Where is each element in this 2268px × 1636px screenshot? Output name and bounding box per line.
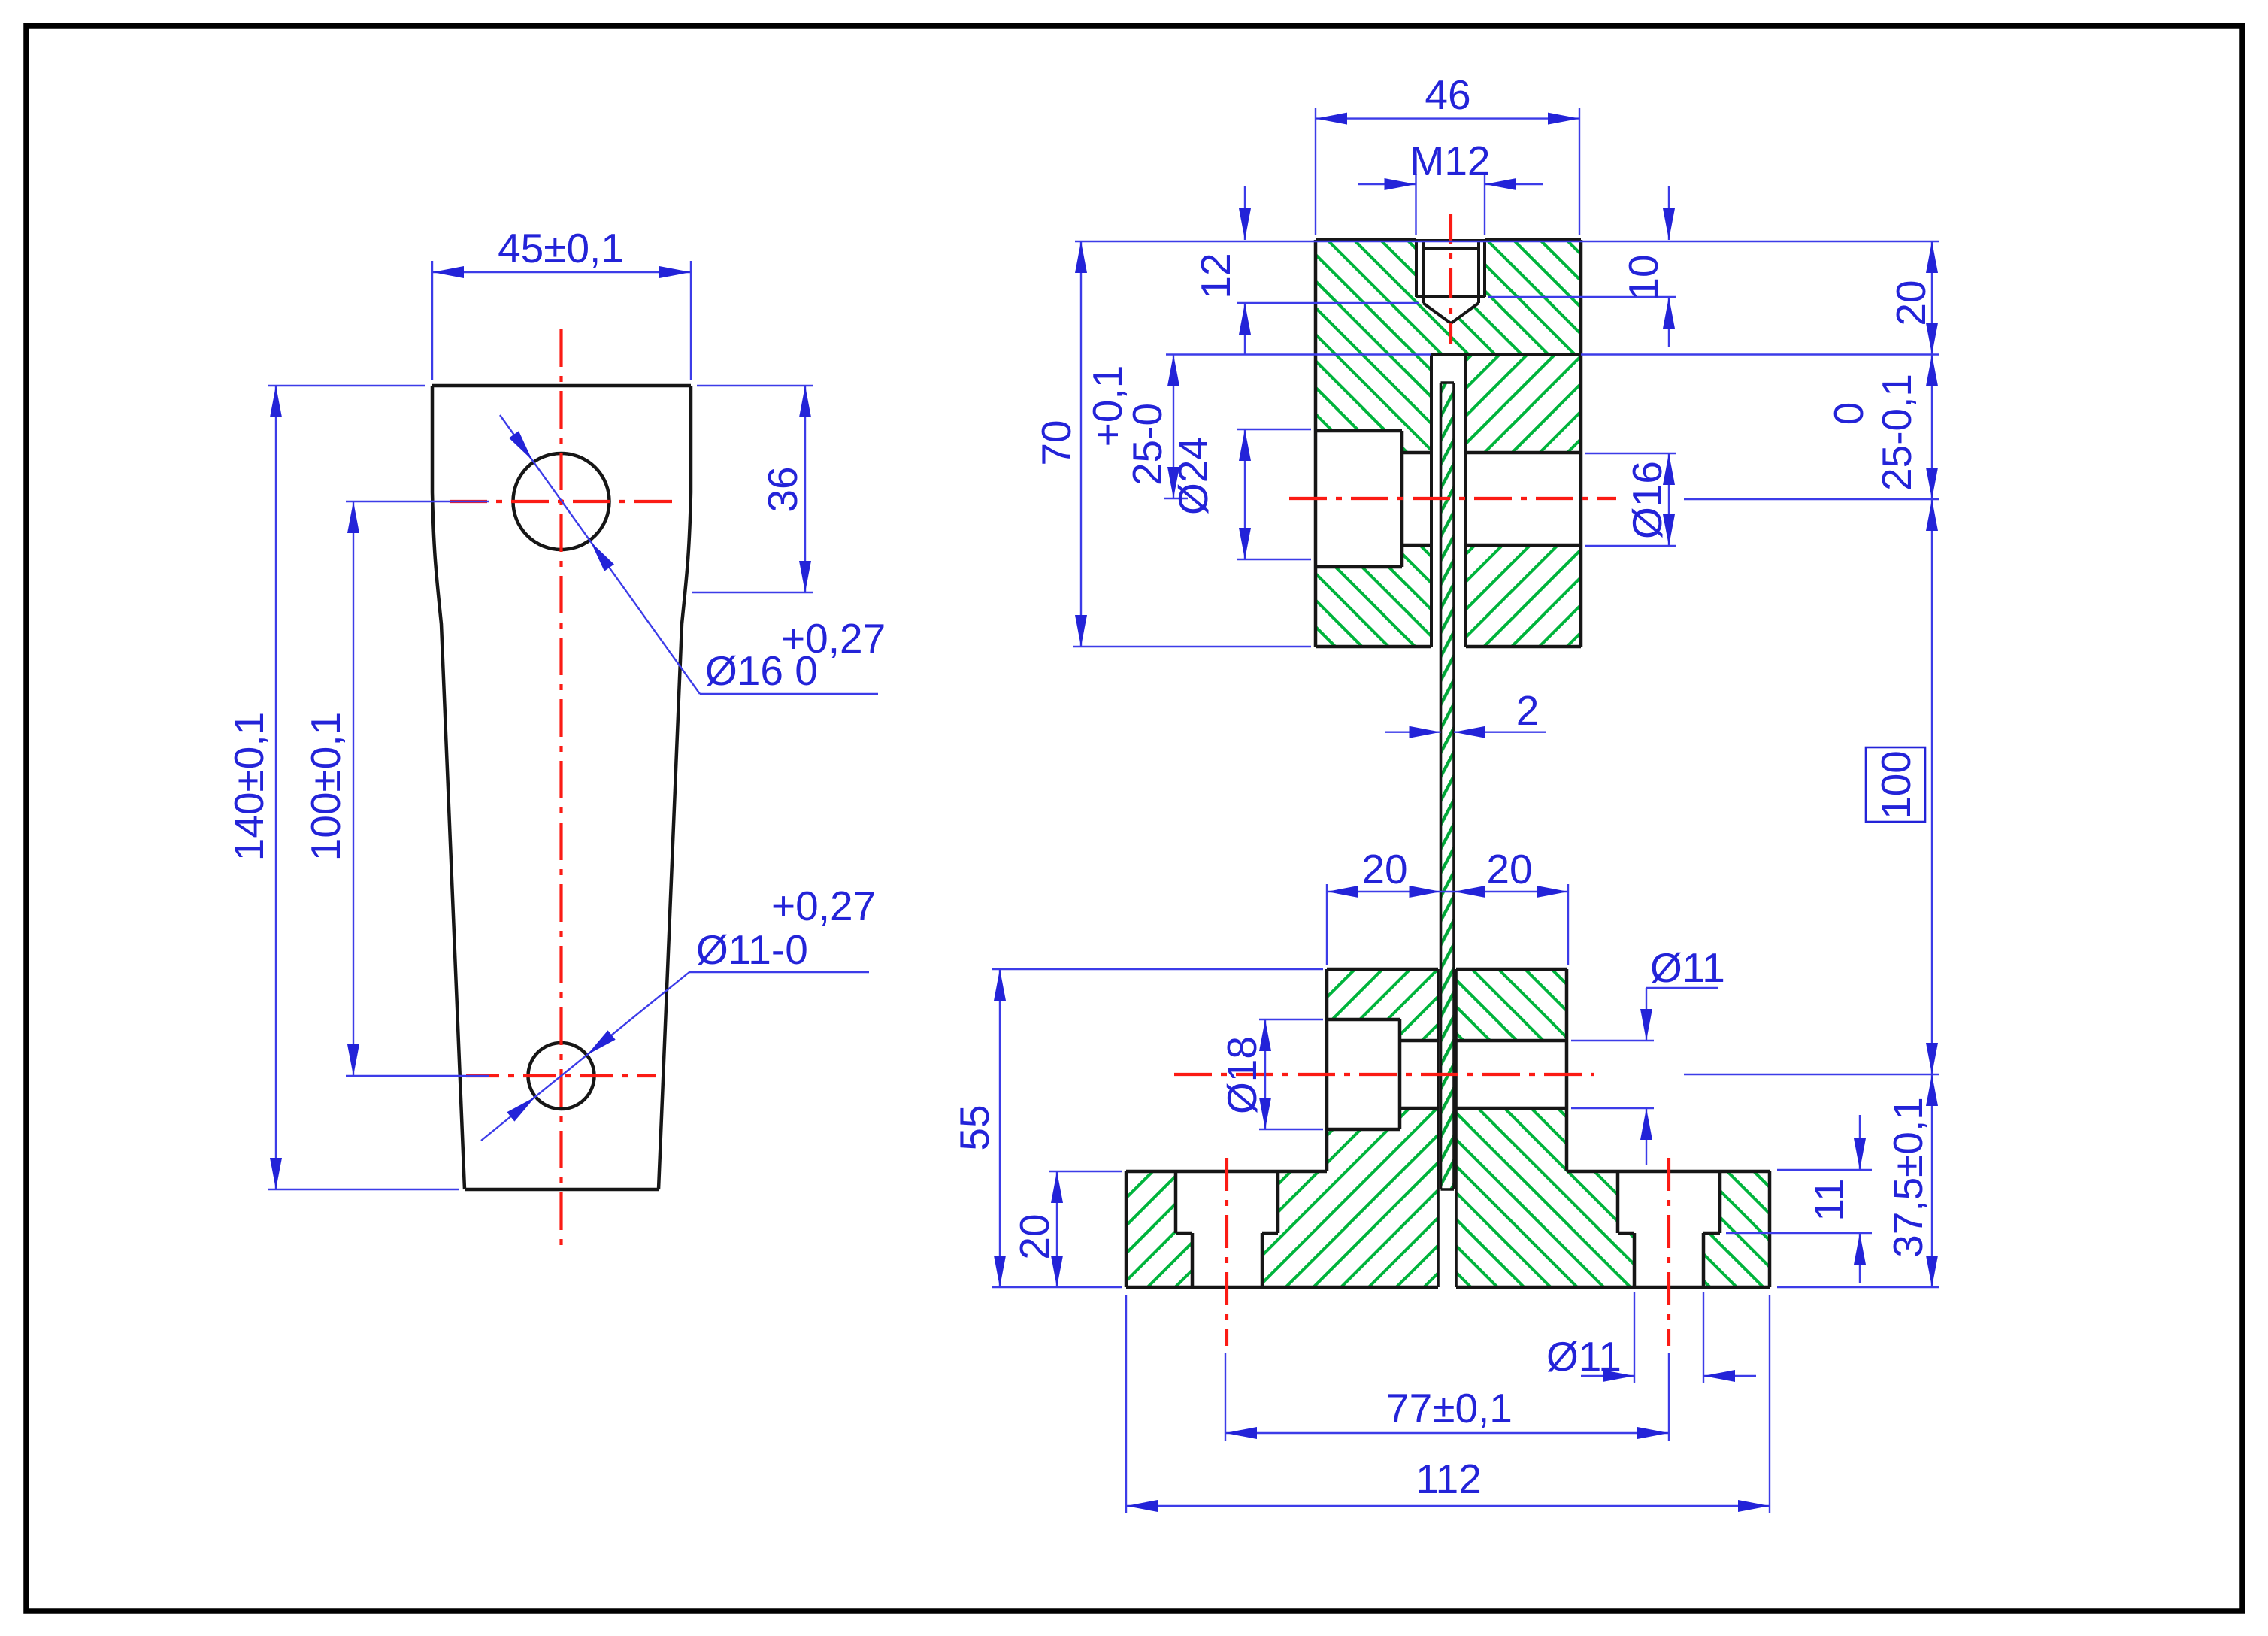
svg-text:Ø24: Ø24 [1170,437,1216,515]
hole circle O11 [528,1043,595,1109]
red centerline upper bore [1289,497,1616,500]
svg-text:25-0,1: 25-0,1 [1873,374,1920,491]
lower bracket outline [1126,969,1770,1287]
vertical centerline plate [559,329,562,1252]
svg-text:37,5±0,1: 37,5±0,1 [1885,1097,1931,1258]
horizontal centerline hole O16 [450,500,673,503]
dim 11 right [1726,1115,1872,1283]
svg-text:45±0,1: 45±0,1 [498,225,624,271]
right flange counterbored hole [1618,1171,1720,1287]
dim 12 [1237,186,1419,355]
left flange counterbored hole [1176,1171,1278,1287]
bore O11 horizontal [1400,1041,1567,1108]
slot in upper block [1431,355,1581,647]
dim 70 [1073,241,1311,647]
svg-text:20: 20 [1361,846,1407,892]
dim 20 20 [1327,884,1568,965]
svg-text:100±0,1: 100±0,1 [302,712,349,861]
dim 46 [1316,108,1579,235]
horizontal centerline hole O11 [466,1074,656,1077]
dim 45+-0,1 [432,261,691,380]
dim O11 bottom [1581,1292,1756,1383]
shared extension line top [1075,241,1939,242]
dim 20 right [1931,241,1933,355]
svg-text:100: 100 [1873,750,1919,820]
svg-text:140±0,1: 140±0,1 [226,712,272,861]
hatch part B (right bushing, forward slash) [1466,355,1581,453]
svg-text:36: 36 [759,466,806,512]
dim O24 [1237,429,1311,559]
svg-text:70: 70 [1033,420,1079,465]
bore O16 [1402,453,1581,545]
hole circle O16 [513,453,610,550]
red centerline M12 [1449,214,1452,344]
dim O18 [1259,1019,1323,1129]
upper block outline [1316,240,1581,647]
dim 140+-0,1 [268,386,459,1189]
dim M12 [1358,174,1543,235]
blade bar hatched [1441,383,1455,1189]
dim 100+-0,1 [346,501,489,1076]
svg-text:Ø11: Ø11 [1546,1333,1622,1380]
svg-text:+0,1: +0,1 [1084,365,1131,447]
svg-text:112: 112 [1416,1456,1482,1502]
tapped hole M12 [1416,240,1485,323]
hatch lower-left half (forward slash) [1327,969,1438,1171]
svg-text:+0,27: +0,27 [771,883,876,929]
saw slot lower part [1438,969,1456,1287]
svg-text:Ø11-0: Ø11-0 [696,926,808,973]
svg-text:M12: M12 [1410,138,1491,184]
dim 25-0 +0,1 [1164,355,1188,499]
svg-text:12: 12 [1192,253,1239,298]
red centerline left flange hole [1225,1158,1228,1346]
svg-text:2: 2 [1516,687,1540,734]
hatch part A (fork, backslash) [1316,240,1581,647]
svg-text:77±0,1: 77±0,1 [1386,1385,1513,1431]
dim 36 [692,386,813,592]
counterbore O18 [1327,1019,1400,1129]
dim O16 right view [1585,453,1676,546]
svg-text:Ø11: Ø11 [1650,944,1725,991]
svg-text:11: 11 [1806,1178,1852,1221]
dim 25-0,1 0 right [1684,355,1939,500]
dim 20 left [1049,1171,1122,1287]
plate outline [432,384,691,388]
dim 37,5+-0,1 [1684,1074,1939,1287]
dim 77+-0,1 [1225,1353,1669,1441]
leader O11 +0,27/-0 [481,972,869,1141]
dim 100 boxed [1931,499,1933,1074]
svg-text:Ø18: Ø18 [1219,1036,1265,1114]
svg-text:Ø16: Ø16 [1624,461,1670,539]
svg-text:+0,27: +0,27 [781,615,886,662]
svg-text:20: 20 [1888,280,1934,326]
red centerline lower bore [1174,1073,1594,1076]
leader O16 +0,27/0 [500,415,878,694]
dim 112 [1126,1295,1770,1513]
hatch lower-right half (backslash) [1456,969,1567,1171]
red centerline right flange hole [1667,1158,1670,1346]
svg-text:55: 55 [951,1104,998,1150]
svg-text:46: 46 [1425,71,1470,118]
svg-text:20: 20 [1011,1213,1058,1259]
shared extension line slot top level [1166,353,1431,355]
svg-text:20: 20 [1486,846,1532,892]
dim 55 [992,969,1323,1287]
svg-text:25-0: 25-0 [1124,403,1170,486]
dim 10 [1488,186,1676,347]
svg-text:10: 10 [1620,254,1667,300]
dim O11 upper right leader [1571,988,1718,1165]
counterbore O24 [1316,431,1402,567]
svg-text:0: 0 [1825,402,1872,426]
dim 2 [1385,732,1546,733]
